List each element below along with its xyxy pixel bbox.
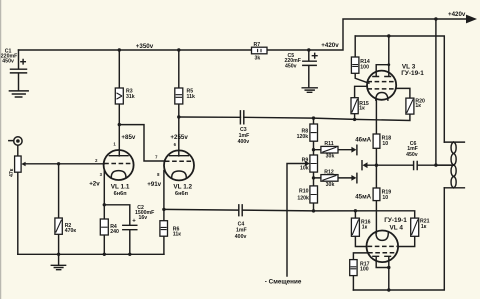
svg-text:6н6п: 6н6п xyxy=(114,191,127,197)
svg-text:6н6п: 6н6п xyxy=(175,191,188,197)
svg-text:ГУ-19-1: ГУ-19-1 xyxy=(401,70,424,77)
svg-text:- Смещение: - Смещение xyxy=(265,279,302,286)
svg-text:+2v: +2v xyxy=(89,180,100,187)
svg-text:VL 1.1: VL 1.1 xyxy=(111,183,130,190)
svg-text:10: 10 xyxy=(382,195,388,201)
svg-text:+420v: +420v xyxy=(321,42,339,49)
svg-text:1к: 1к xyxy=(362,224,368,230)
svg-text:+255v: +255v xyxy=(170,134,188,141)
svg-text:120k: 120k xyxy=(297,195,309,201)
svg-text:100: 100 xyxy=(360,64,369,70)
svg-text:46мА: 46мА xyxy=(355,136,371,143)
svg-text:400v: 400v xyxy=(238,139,250,145)
svg-text:R11: R11 xyxy=(324,141,333,147)
svg-text:VL 1.2: VL 1.2 xyxy=(173,183,192,190)
svg-text:100: 100 xyxy=(360,267,369,273)
svg-text:11k: 11k xyxy=(187,94,195,100)
svg-text:120k: 120k xyxy=(297,134,309,140)
svg-text:45мА: 45мА xyxy=(355,194,371,201)
svg-text:1к: 1к xyxy=(359,106,365,112)
svg-text:R10: R10 xyxy=(299,188,309,194)
svg-text:30k: 30k xyxy=(326,153,335,159)
svg-text:1к: 1к xyxy=(421,224,427,230)
svg-text:400v: 400v xyxy=(235,234,247,240)
svg-text:450v: 450v xyxy=(406,152,418,158)
svg-text:10k: 10k xyxy=(300,166,309,172)
svg-text:47к: 47к xyxy=(9,168,15,177)
svg-text:1mF: 1mF xyxy=(236,228,247,234)
svg-text:+85v: +85v xyxy=(121,134,135,141)
svg-text:R7: R7 xyxy=(254,42,261,48)
svg-text:1к: 1к xyxy=(415,103,421,109)
svg-text:470к: 470к xyxy=(65,228,77,234)
svg-text:450v: 450v xyxy=(2,59,14,65)
svg-text:+420v: +420v xyxy=(448,11,466,18)
svg-text:240: 240 xyxy=(110,229,119,235)
svg-text:R12: R12 xyxy=(324,169,334,175)
svg-text:3k: 3k xyxy=(255,55,261,61)
svg-text:VL 4: VL 4 xyxy=(390,225,404,232)
svg-text:31k: 31k xyxy=(126,94,135,100)
svg-text:ГУ-19-1: ГУ-19-1 xyxy=(384,217,407,224)
svg-text:R9: R9 xyxy=(302,158,309,164)
svg-text:10: 10 xyxy=(382,141,388,147)
svg-text:450v: 450v xyxy=(285,63,297,69)
svg-text:16v: 16v xyxy=(139,215,148,221)
svg-text:+350v: +350v xyxy=(136,43,154,50)
svg-text:+91v: +91v xyxy=(147,181,161,188)
svg-text:+: + xyxy=(132,219,136,225)
svg-text:11к: 11к xyxy=(173,231,181,237)
svg-text:30k: 30k xyxy=(326,182,335,188)
